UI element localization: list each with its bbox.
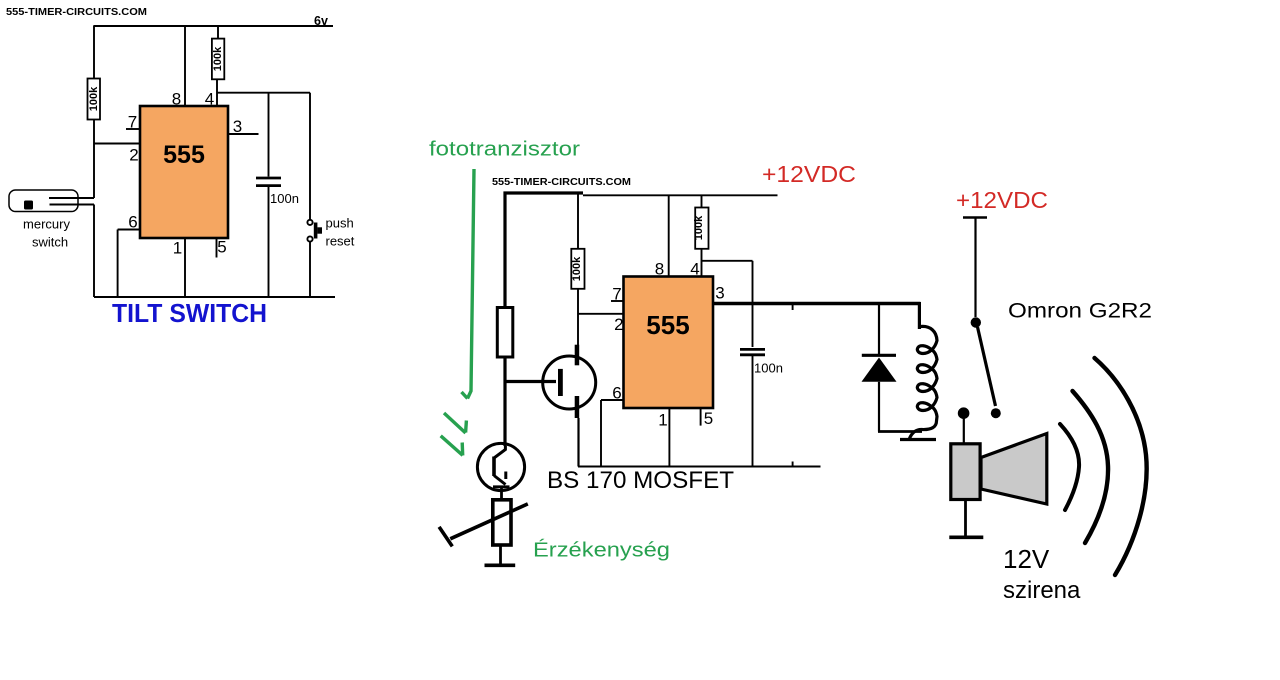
svg-text:reset: reset (326, 234, 355, 249)
series resistor (photo collector) thick (497, 308, 513, 358)
wire pot to ground (499, 545, 502, 564)
arrow big green pointer (468, 169, 475, 399)
svg-text:3: 3 (233, 117, 242, 136)
push reset wire lower (309, 242, 311, 297)
+12VDC supply bar (switch) (963, 216, 987, 219)
speaker driver box (951, 444, 980, 500)
capacitor C2 wire bottom (752, 356, 754, 467)
pin 8 wire (184, 26, 186, 106)
svg-text:1: 1 (173, 239, 182, 258)
pin 3 stub (228, 133, 259, 135)
wire pin 2 branch (578, 313, 624, 315)
capacitor C1 wire top (268, 93, 270, 177)
diode D1 wire bottom (878, 382, 880, 432)
svg-text:6: 6 (128, 213, 137, 232)
svg-text:Érzékenység: Érzékenység (533, 539, 670, 562)
wire mercury switch down to ground rail (93, 205, 95, 298)
thick wire resistor to gate junction (503, 357, 506, 446)
wire supply to switch contact (974, 218, 976, 317)
Q1 base bar (492, 457, 496, 477)
pin 6 wire (601, 399, 624, 401)
svg-text:555-TIMER-CIRCUITS.COM: 555-TIMER-CIRCUITS.COM (6, 6, 147, 18)
svg-text:100k: 100k (88, 86, 100, 111)
sound arc 3 (1095, 358, 1147, 575)
diode D1 triangle (862, 358, 897, 382)
svg-text:8: 8 (172, 90, 181, 109)
resistor R4 100k wire top (701, 195, 703, 208)
mercury switch capsule (9, 190, 78, 212)
wire diode to coil bottom (878, 430, 922, 433)
push reset wire upper (309, 93, 311, 220)
resistor R1 100k (88, 79, 101, 120)
svg-text:8: 8 (655, 260, 664, 279)
push button actuator (314, 223, 318, 239)
svg-text:100n: 100n (754, 361, 783, 376)
pin 5 stub (700, 408, 702, 426)
svg-text:Omron G2R2: Omron G2R2 (1008, 299, 1152, 323)
resistor R2 100k (212, 39, 224, 80)
arrow light ray 1 (444, 413, 466, 433)
resistor R3 100k (571, 249, 584, 289)
svg-text:6v: 6v (314, 14, 328, 28)
wire pin4 branch to cap (702, 260, 753, 262)
ground bar (485, 563, 516, 567)
svg-text:555: 555 (646, 310, 689, 340)
svg-text:7: 7 (128, 113, 137, 132)
op 555 IC U2 body (624, 277, 714, 409)
svg-text:7: 7 (612, 285, 621, 304)
op 555 IC U1 body (140, 106, 228, 238)
wire R1 bottom down to mercury switch top contact (93, 120, 95, 199)
wire gate line (505, 380, 556, 383)
svg-text:BS 170 MOSFET: BS 170 MOSFET (547, 467, 734, 494)
svg-text:4: 4 (205, 90, 214, 109)
transistor Q2 BS170 circle (543, 356, 596, 409)
resistor R4 100k (695, 208, 708, 249)
switch blade (978, 327, 996, 406)
ground rail bottom right circuit (578, 466, 821, 468)
gate bar (558, 369, 563, 396)
wire Q1 emitter to pot (500, 487, 503, 500)
speaker horn (981, 434, 1047, 505)
capacitor C2 plates (740, 348, 765, 351)
mercury blob (24, 201, 33, 210)
junction tick on pin3 wire (792, 304, 794, 311)
svg-text:12V: 12V (1003, 544, 1050, 574)
svg-text:555: 555 (163, 141, 205, 169)
capacitor C1 plates (256, 177, 281, 180)
svg-text:mercury: mercury (23, 217, 70, 232)
wire 6v supply rail top (94, 25, 333, 27)
capacitor C1 wire bottom (268, 187, 270, 297)
thin supply wire to right (583, 194, 778, 196)
wire from rail down to R1 (93, 25, 95, 79)
relay coil L1 (910, 326, 938, 438)
svg-text:100k: 100k (212, 46, 224, 71)
switch contact dot right (991, 408, 1001, 418)
sound arc 1 (1060, 424, 1079, 510)
Q1 emitter (494, 476, 506, 485)
svg-text:100n: 100n (270, 191, 299, 206)
thick supply wire top (504, 191, 584, 194)
wire pin4 branch to reset/cap (217, 92, 310, 94)
wire R3 bottom to MOSFET drain (577, 289, 579, 345)
svg-text:5: 5 (217, 238, 226, 257)
Q1 collector bend (494, 446, 505, 458)
svg-text:+12VDC: +12VDC (762, 161, 856, 187)
wire rail down to R2 (217, 26, 219, 39)
ground rail bottom (94, 296, 335, 298)
relay coil corner wire (918, 302, 921, 329)
pin 8 wire (668, 195, 670, 276)
pin 1 wire (668, 408, 670, 467)
svg-text:2: 2 (129, 146, 138, 165)
svg-text:555-TIMER-CIRCUITS.COM: 555-TIMER-CIRCUITS.COM (492, 176, 631, 188)
junction tick on ground rail (792, 462, 794, 467)
pin 4 wire (701, 249, 703, 277)
svg-text:6: 6 (612, 384, 621, 403)
sound arc 2 (1073, 391, 1109, 543)
transistor Q1 phototransistor circle (477, 443, 524, 490)
wire pin 2 branch (94, 143, 140, 145)
svg-text:100k: 100k (571, 256, 583, 281)
wire source down to ground rail (577, 418, 579, 467)
pin 1 wire (184, 238, 186, 297)
wire speaker to ground (964, 500, 967, 537)
potentiometer body (493, 500, 511, 545)
relay coil bottom tail (900, 438, 936, 441)
svg-text:5: 5 (704, 409, 713, 428)
Q1 emitter arrow barb (504, 472, 507, 480)
pin 3 thick output wire (713, 302, 920, 305)
switch contact dot top (971, 317, 981, 327)
Q1 bottom bar (493, 485, 510, 488)
push button contacts (307, 220, 312, 225)
svg-text:TILT SWITCH: TILT SWITCH (112, 300, 267, 328)
diode D1 wire top (878, 304, 880, 355)
pin 7 stub (126, 128, 140, 130)
pin 7 stub (611, 300, 624, 302)
mercury switch contact wires (49, 197, 94, 199)
svg-text:fototranzisztor: fototranzisztor (429, 138, 580, 161)
pin 4 wire (216, 79, 218, 106)
svg-text:1: 1 (658, 411, 667, 430)
pin 6 wire (118, 229, 140, 231)
resistor R3 100k wire top (577, 193, 579, 249)
potentiometer wiper arrow (450, 504, 528, 539)
svg-text:szirena: szirena (1003, 577, 1081, 604)
svg-text:switch: switch (32, 235, 68, 250)
svg-text:push: push (326, 216, 354, 231)
svg-text:+12VDC: +12VDC (956, 187, 1048, 213)
diode D1 cathode bar (862, 354, 896, 357)
svg-text:3: 3 (715, 284, 724, 303)
svg-text:2: 2 (614, 315, 623, 334)
svg-text:4: 4 (690, 260, 699, 279)
pin 5 stub (216, 238, 218, 258)
switch contact dot left (958, 407, 970, 419)
wire contact to speaker (963, 418, 965, 444)
svg-text:100k: 100k (693, 215, 705, 240)
source bar (575, 396, 580, 418)
drain bar (575, 345, 580, 366)
arrow light ray 2 (441, 436, 463, 456)
ground bar speaker (949, 535, 983, 539)
